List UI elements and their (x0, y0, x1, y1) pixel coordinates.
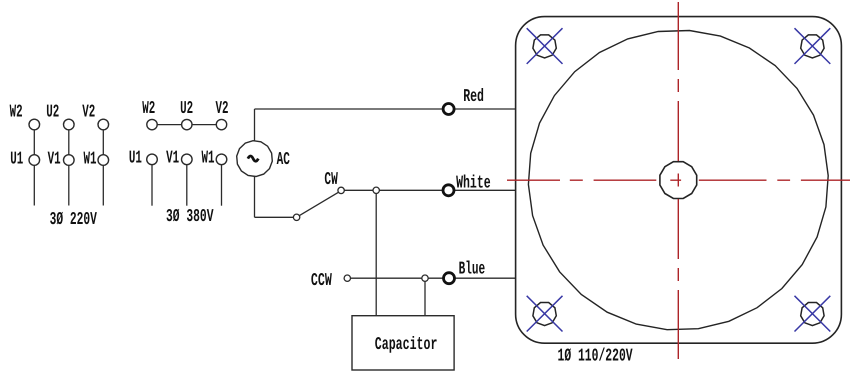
svg-text:U2: U2 (180, 99, 193, 119)
svg-text:1Ø 110/220V: 1Ø 110/220V (558, 346, 633, 366)
junction on Blue line (422, 275, 428, 281)
AC source U1 (237, 141, 273, 177)
svg-text:W2: W2 (142, 99, 155, 119)
svg-text:W1: W1 (84, 149, 97, 169)
hole cross bottom-right (795, 296, 831, 332)
svg-text:Capacitor: Capacitor (375, 335, 438, 355)
terminal W2 (380V group) (147, 119, 157, 129)
switch pivot contact (293, 214, 299, 220)
AC sine symbol (248, 156, 258, 161)
svg-text:U1: U1 (129, 148, 142, 168)
svg-text:V1: V1 (48, 149, 61, 169)
motor body circle (faceted) (528, 31, 828, 330)
wire top horizontal to motor (Red line) (255, 108, 516, 110)
terminal Red (bold ring) (443, 104, 454, 115)
switch CCW contact (344, 275, 350, 281)
motor shaft circle (faceted) (660, 162, 697, 199)
wire column U2-V1 (3ph 220V group) (68, 125, 70, 206)
svg-text:W1: W1 (202, 148, 215, 168)
hole cross top-right (795, 28, 831, 64)
wire AC bottom vertical (254, 176, 256, 217)
svg-text:V2: V2 (82, 103, 95, 123)
hole cross top-left (527, 28, 563, 64)
wire bus W2-U2-V2 (3ph 380V group) (152, 124, 222, 126)
terminal U2 (380V group) (182, 119, 192, 129)
vertical centerline (red, dash-dot) (677, 2, 679, 359)
terminal V2 (220V group) (98, 119, 109, 130)
wire column W2-U1 (3ph 220V group) (33, 125, 35, 206)
horizontal centerline (red, dash-dot) (507, 179, 850, 181)
motor flange outline (rounded square) (516, 17, 842, 344)
svg-text:Red: Red (463, 87, 484, 107)
svg-text:3Ø 380V: 3Ø 380V (166, 207, 214, 227)
svg-text:3Ø 220V: 3Ø 220V (50, 210, 97, 230)
wire bottom horizontal to switch pivot (255, 216, 294, 218)
wire AC top vertical (254, 109, 256, 141)
svg-text:V2: V2 (216, 99, 229, 119)
terminal Blue (bold ring) (444, 273, 455, 284)
terminal W1 (220V group) (98, 155, 109, 166)
wire stub V1 (380V group) (186, 159, 188, 205)
svg-text:AC: AC (277, 150, 290, 170)
svg-text:U2: U2 (46, 103, 59, 123)
mounting hole top-left (533, 35, 556, 58)
hole cross bottom-left (527, 296, 563, 332)
capacitor box (352, 316, 454, 370)
svg-text:W2: W2 (10, 103, 23, 123)
wire capacitor leg 2 (424, 278, 426, 316)
wire Blue line (CCW) (351, 277, 516, 279)
terminal U2 (220V group) (64, 119, 75, 130)
mounting hole top-right (801, 35, 824, 58)
switch blade (299, 192, 338, 215)
svg-text:CCW: CCW (311, 271, 332, 291)
svg-text:CW: CW (324, 170, 338, 190)
svg-text:White: White (456, 174, 491, 194)
switch CW contact (338, 187, 344, 193)
terminal W1 (380V group) (216, 154, 227, 165)
terminal V1 (380V group) (182, 154, 193, 165)
mounting hole bottom-right (801, 303, 824, 326)
terminal V2 (380V group) (216, 119, 226, 129)
svg-text:V1: V1 (166, 148, 179, 168)
terminal V1 (220V group) (64, 155, 75, 166)
wire stub U1 (380V group) (151, 159, 153, 205)
svg-text:Blue: Blue (459, 260, 486, 280)
junction on White line (373, 187, 379, 193)
wire White line (344, 189, 515, 191)
wire column V2-W1 (3ph 220V group) (102, 125, 104, 206)
svg-text:U1: U1 (10, 149, 23, 169)
mounting hole bottom-left (533, 303, 556, 326)
terminal U1 (380V group) (147, 154, 158, 165)
wire capacitor leg 1 (375, 190, 377, 315)
terminal White (bold ring) (443, 185, 454, 196)
wire stub W1 (380V group) (221, 159, 223, 205)
terminal W2 (220V group) (29, 119, 40, 130)
terminal U1 (220V group) (29, 155, 40, 166)
